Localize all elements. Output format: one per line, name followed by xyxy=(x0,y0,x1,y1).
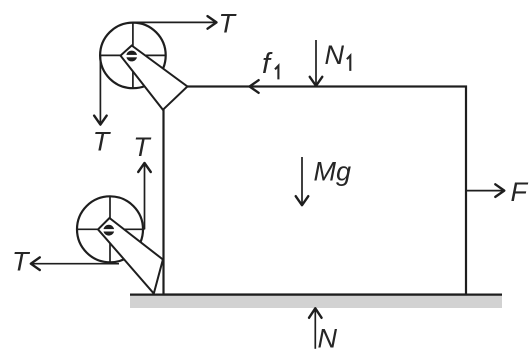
pulley P1 wheel (top) xyxy=(100,23,166,89)
weight arrow Mg (down, center of block) xyxy=(296,157,309,205)
pulley P2 hub xyxy=(103,225,115,236)
pulley P2 wheel (bottom) xyxy=(77,196,145,262)
block M (rectangle) xyxy=(164,87,467,295)
svg-text:F: F xyxy=(511,177,529,207)
pulley P1 bracket arm xyxy=(121,46,188,110)
svg-text:N: N xyxy=(318,323,338,353)
svg-text:Mg: Mg xyxy=(314,156,352,186)
tension arrow T down (left of pulley P1) xyxy=(94,55,107,124)
pulley P1 hub xyxy=(126,51,138,62)
normal force arrow N1 (down onto top edge) xyxy=(310,40,323,86)
pulley P2 bracket arm xyxy=(98,218,163,294)
svg-text:T: T xyxy=(133,132,152,162)
normal force arrow N (up onto ground bar) xyxy=(309,308,322,349)
svg-text:N: N xyxy=(325,40,345,70)
applied force arrow F (right side) xyxy=(466,184,504,197)
tension arrow T up (rope from pulley P2 to block side) xyxy=(138,163,151,229)
tension arrow T left (from bottom of pulley P2) xyxy=(31,257,119,270)
ground bar xyxy=(130,295,502,308)
svg-text:T: T xyxy=(12,247,31,277)
tension arrow T right (from top of pulley P1) xyxy=(133,16,217,29)
friction arrowhead f1 (on top edge, pointing left) xyxy=(250,80,259,93)
svg-text:T: T xyxy=(93,126,112,156)
svg-text:T: T xyxy=(219,8,238,38)
